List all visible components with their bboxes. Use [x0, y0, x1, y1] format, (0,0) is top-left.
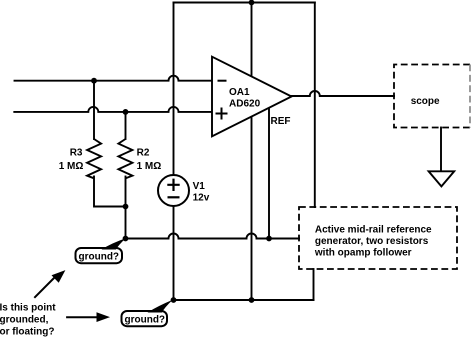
- svg-text:with opamp follower: with opamp follower: [314, 247, 412, 258]
- arrow to ground point 1: [34, 276, 56, 298]
- svg-text:scope: scope: [411, 96, 440, 107]
- op-amp inverting input minus symbol: [218, 80, 227, 82]
- node ground query point 2: [171, 297, 177, 303]
- resistor R2: [118, 139, 132, 178]
- svg-text:generator, two resistors: generator, two resistors: [315, 236, 429, 247]
- callout tail 1: [102, 238, 126, 249]
- voltage source V1: [158, 175, 189, 206]
- wire op-amp output to scope (with hop): [292, 91, 395, 96]
- svg-text:AD620: AD620: [229, 99, 261, 110]
- svg-text:1 MΩ: 1 MΩ: [59, 161, 84, 172]
- wire top rail: [174, 2, 315, 4]
- node R2 to input wire: [123, 109, 129, 115]
- V1 minus symbol: [168, 196, 180, 198]
- svg-text:OA1: OA1: [229, 87, 250, 98]
- svg-text:Is this point: Is this point: [0, 302, 56, 313]
- wire V1 negative branch: [173, 206, 175, 300]
- svg-text:grounded,: grounded,: [0, 314, 49, 325]
- wire mid-rail vertical (node REF net): [251, 3, 253, 301]
- arrow to ground point 2: [66, 316, 97, 318]
- op-amp non-inverting input plus symbol: [216, 108, 228, 120]
- wire reference box bottom connector: [313, 269, 315, 300]
- scope box (dashed): [394, 65, 470, 128]
- svg-text:Active mid-rail reference: Active mid-rail reference: [315, 225, 432, 236]
- svg-text:ground?: ground?: [125, 314, 166, 325]
- callout tail 2: [148, 300, 173, 313]
- op-amp OA1 triangle: [212, 57, 292, 137]
- node mid-rail to lower rail: [249, 297, 255, 303]
- svg-text:R2: R2: [137, 147, 150, 158]
- callout ground? box 1: [76, 248, 123, 263]
- scope box right edge: [469, 65, 471, 128]
- wire lower rail: [174, 299, 314, 301]
- svg-text:1 MΩ: 1 MΩ: [137, 161, 162, 172]
- wire V1 positive branch: [173, 3, 175, 176]
- node R3 to input wire: [91, 78, 97, 84]
- V1 plus symbol: [167, 179, 179, 191]
- wire mid horizontal to reference box (with two hops): [126, 234, 300, 239]
- wire R2 bottom down to mid wire: [125, 177, 127, 239]
- node mid-rail to top rail: [249, 0, 255, 5]
- reference generator dashed box: [299, 207, 457, 269]
- wire input to non-inverting input (with two hops): [14, 107, 212, 112]
- wire input to inverting input (with hop): [15, 76, 213, 81]
- node ground query point 1: [123, 236, 129, 242]
- wire resistor bottoms link: [94, 177, 126, 207]
- svg-text:V1: V1: [193, 181, 206, 192]
- node REF to mid wire: [266, 236, 272, 242]
- wire R2 top lead: [125, 112, 127, 139]
- svg-text:or floating?: or floating?: [0, 327, 55, 338]
- wire scope ground stem: [440, 128, 442, 172]
- resistor R3: [87, 139, 101, 178]
- wire REF pin branch: [268, 100, 270, 239]
- wire R3 top lead: [93, 81, 95, 139]
- svg-text:REF: REF: [271, 116, 291, 127]
- svg-text:12v: 12v: [193, 192, 210, 203]
- callout ground? box 2: [122, 311, 168, 326]
- wire right vertical to reference box: [314, 3, 316, 208]
- svg-text:ground?: ground?: [79, 251, 120, 262]
- ground symbol below scope: [429, 171, 455, 186]
- node resistor bottoms junction: [123, 204, 129, 210]
- svg-text:R3: R3: [70, 147, 83, 158]
